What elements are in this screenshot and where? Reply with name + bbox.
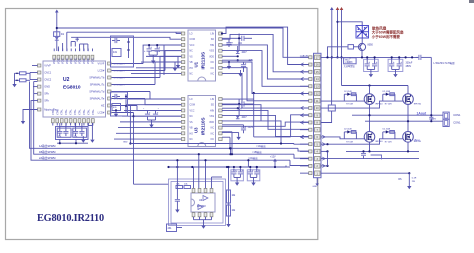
svg-text:SD: SD (211, 105, 215, 107)
svg-text:VDD: VDD (209, 122, 214, 124)
svg-text:22p: 22p (74, 136, 77, 138)
svg-text:NC: NC (211, 74, 215, 76)
svg-text:HIN: HIN (210, 110, 214, 112)
svg-text:VVVF: VVVF (44, 64, 51, 68)
svg-text:U1: U1 (194, 61, 199, 67)
svg-text:D2 4148: D2 4148 (344, 129, 352, 131)
svg-text:L:50uH/4.7mH电感: L:50uH/4.7mH电感 (434, 61, 456, 65)
svg-text:431: 431 (168, 227, 173, 230)
svg-text:VDD1: VDD1 (57, 57, 60, 64)
svg-text:NC: NC (190, 51, 194, 53)
svg-text:VB: VB (190, 128, 194, 130)
svg-text:NC: NC (211, 68, 215, 70)
svg-text:VSS: VSS (209, 51, 214, 53)
svg-text:<1B输出: <1B输出 (252, 150, 262, 154)
svg-text:R7 10R: R7 10R (385, 141, 392, 143)
svg-text:NC: NC (211, 133, 215, 135)
svg-text:IR2110S: IR2110S (201, 52, 206, 70)
svg-text:1B输出SPWM: 1B输出SPWM (39, 150, 55, 154)
svg-text:NC: NC (211, 139, 215, 141)
svg-text:4007: 4007 (242, 117, 248, 119)
svg-text:U3: U3 (194, 127, 199, 133)
svg-text:NC: NC (190, 74, 194, 76)
svg-text:8050: 8050 (368, 44, 374, 47)
svg-text:CNC2: CNC2 (44, 78, 52, 82)
svg-text:VS: VS (190, 56, 194, 58)
svg-text:LIN: LIN (210, 99, 214, 101)
svg-text:SPWMAL/T: SPWMAL/T (114, 70, 126, 73)
svg-text:CON1: CON1 (453, 113, 461, 117)
svg-text:XTAL: XTAL (56, 109, 59, 115)
svg-text:RS: RS (398, 179, 402, 181)
svg-text:XTAL: XTAL (70, 109, 73, 115)
svg-text:VDD1: VDD1 (83, 57, 86, 64)
svg-text:SPWMAL/Td: SPWMAL/Td (89, 90, 105, 94)
svg-text:SPWMAL/T: SPWMAL/T (114, 84, 126, 87)
svg-text:LCD#: LCD# (98, 111, 105, 115)
svg-text:SD: SD (211, 39, 215, 41)
svg-text:LCD#: LCD# (98, 69, 105, 73)
svg-text:SFb: SFb (44, 99, 49, 103)
svg-text:D2 4148: D2 4148 (383, 91, 391, 93)
svg-text:SPWMAL/T: SPWMAL/T (114, 77, 126, 80)
svg-text:CON1: CON1 (453, 120, 461, 124)
svg-text:U2: U2 (63, 77, 70, 83)
svg-text:VDD1: VDD1 (87, 57, 90, 64)
svg-text:4007: 4007 (242, 52, 248, 54)
svg-text:GND: GND (44, 85, 50, 89)
svg-text:COM: COM (190, 39, 195, 41)
svg-text:XTAL: XTAL (83, 109, 86, 115)
svg-text:VSS: VSS (209, 116, 214, 118)
svg-text:VDD: VDD (209, 56, 214, 58)
svg-text:<1A输出: <1A输出 (256, 144, 266, 148)
svg-text:1Aout: 1Aout (417, 111, 427, 115)
svg-text:VS: VS (190, 122, 194, 124)
svg-text:SPWMAL/Tc: SPWMAL/Tc (90, 83, 105, 87)
svg-text:D2 4148: D2 4148 (383, 129, 391, 131)
svg-text:SFb: SFb (44, 92, 49, 96)
svg-text:VDD1: VDD1 (74, 57, 77, 64)
svg-text:XTAL: XTAL (87, 109, 90, 115)
svg-text:IR2110S: IR2110S (201, 117, 206, 135)
svg-text:VDD1: VDD1 (53, 57, 56, 64)
svg-text:VDD1: VDD1 (66, 57, 69, 64)
svg-text:VB: VB (190, 62, 194, 64)
svg-text:GND: GND (313, 186, 318, 188)
svg-text:XTAL: XTAL (79, 109, 82, 115)
svg-text:450V: 450V (406, 65, 412, 68)
svg-text:0.1R: 0.1R (412, 178, 417, 180)
svg-text:R7 10R: R7 10R (346, 141, 353, 143)
svg-text:22p: 22p (58, 136, 61, 138)
svg-text:VDD1: VDD1 (91, 57, 94, 64)
svg-text:HO: HO (190, 68, 194, 70)
svg-text:VCC: VCC (190, 45, 195, 47)
svg-text:EG8010.IR2110: EG8010.IR2110 (37, 213, 104, 224)
svg-text:LO: LO (190, 34, 193, 36)
svg-text:XTAL: XTAL (61, 109, 64, 115)
svg-text:U4: U4 (199, 198, 203, 202)
svg-text:VCC: VCC (190, 110, 195, 112)
svg-text:EG8010: EG8010 (63, 85, 81, 91)
svg-text:NC: NC (211, 62, 215, 64)
svg-text:LO: LO (190, 99, 193, 101)
svg-text:1A输出SPWM: 1A输出SPWM (39, 144, 55, 148)
svg-text:HO: HO (190, 133, 194, 135)
svg-text:2A输出SPWM: 2A输出SPWM (39, 156, 55, 160)
svg-text:LIN: LIN (210, 34, 214, 36)
svg-text:VVVF: VVVF (98, 62, 105, 66)
svg-text:COM: COM (190, 105, 195, 107)
svg-text:小于60W则不需要: 小于60W则不需要 (371, 34, 401, 39)
svg-text:D2 4148: D2 4148 (344, 91, 352, 93)
svg-text:SPWMAL/Te: SPWMAL/Te (90, 97, 105, 101)
svg-text:431: 431 (113, 51, 118, 54)
svg-text:CNC1: CNC1 (44, 71, 52, 75)
svg-text:VDD1: VDD1 (62, 57, 65, 64)
svg-text:1Bout: 1Bout (414, 139, 421, 142)
svg-text:XTAL: XTAL (92, 109, 95, 115)
svg-text:VDD1: VDD1 (79, 57, 82, 64)
svg-text:<2A输出: <2A输出 (248, 156, 258, 160)
svg-text:IRF740: IRF740 (414, 104, 422, 106)
svg-text:XTAL: XTAL (52, 109, 55, 115)
svg-text:VDD1: VDD1 (70, 57, 73, 64)
svg-text:XTAL: XTAL (74, 109, 77, 115)
svg-text:XTAL: XTAL (65, 109, 68, 115)
svg-text:R7 10R: R7 10R (385, 104, 392, 106)
svg-text:R7 10R: R7 10R (346, 104, 353, 106)
svg-text:HIN: HIN (210, 45, 214, 47)
svg-text:HZ: HZ (101, 104, 105, 108)
svg-text:散热风扇: 散热风扇 (372, 25, 387, 30)
svg-text:SPWMAL/T: SPWMAL/T (114, 63, 126, 66)
svg-text:1-6ACIN: 1-6ACIN (300, 54, 309, 57)
svg-text:GND: GND (123, 142, 128, 144)
svg-text:NC: NC (190, 116, 194, 118)
svg-text:NC: NC (190, 139, 194, 141)
svg-text:NC: NC (211, 128, 215, 130)
svg-text:SPWMAL/Tb: SPWMAL/Tb (89, 76, 105, 80)
svg-text:+12V: +12V (270, 156, 276, 159)
svg-text:220V: 220V (431, 119, 437, 121)
